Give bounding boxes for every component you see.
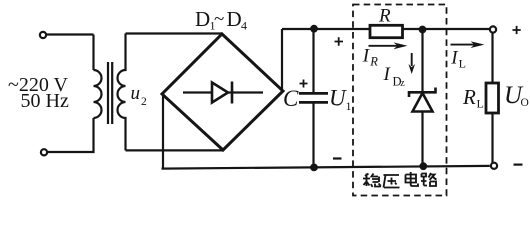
output terminal bottom	[491, 163, 497, 169]
label wen (stable)	[363, 174, 381, 188]
wire RL lower	[491, 113, 493, 163]
wire capacitor lower	[312, 102, 314, 167]
output terminal top	[490, 26, 496, 32]
arrow IL	[451, 44, 477, 46]
svg-text:R: R	[462, 85, 476, 109]
arrow IDz	[411, 53, 413, 66]
svg-text:1: 1	[346, 99, 352, 113]
minus sign rail U1	[333, 157, 342, 159]
zener diode Dz triangle	[413, 93, 433, 112]
wire RL upper	[491, 33, 493, 83]
wire top rail	[282, 28, 490, 30]
winding primary	[94, 70, 102, 118]
svg-text:R: R	[369, 55, 378, 69]
svg-text:O: O	[521, 97, 529, 109]
transformer core	[108, 62, 112, 124]
resistor R body	[370, 25, 403, 37]
minus sign output	[514, 164, 523, 166]
node capacitor bottom	[311, 164, 318, 171]
regulator dashed box	[353, 5, 447, 196]
resistor RL body	[486, 83, 499, 113]
wire bridge right vertex up	[281, 29, 283, 91]
svg-text:50 Hz: 50 Hz	[21, 90, 69, 112]
svg-text:U: U	[329, 86, 347, 111]
wire primary bottom	[48, 118, 94, 152]
bridge inner diode bar	[231, 82, 234, 104]
bridge inner diode lead	[183, 91, 263, 93]
wire top-left	[47, 33, 94, 35]
wire zener lower	[421, 112, 423, 167]
svg-text:z: z	[400, 78, 405, 89]
svg-text:D: D	[195, 7, 210, 31]
wire bridge left vertex down	[162, 94, 164, 169]
svg-text:~: ~	[214, 9, 224, 30]
zener diode Dz bar with wings	[409, 88, 436, 98]
svg-text:4: 4	[241, 19, 247, 33]
label dian (electric)	[406, 172, 419, 186]
svg-text:L: L	[459, 56, 466, 70]
svg-text:L: L	[477, 97, 484, 111]
arrow IR	[369, 45, 400, 47]
label lu (road)	[421, 173, 437, 186]
svg-text:R: R	[378, 6, 391, 27]
wire capacitor upper	[312, 29, 314, 92]
svg-text:C: C	[283, 86, 299, 111]
wire bottom rail	[162, 166, 490, 169]
winding secondary	[118, 34, 126, 151]
bridge rectifier D1-D4 diamond	[162, 34, 283, 150]
bridge inner diode triangle	[212, 83, 228, 103]
wire secondary top to bridge	[126, 32, 223, 34]
label ya (pressure)	[384, 175, 400, 188]
wire zener upper	[421, 30, 423, 93]
node zener bottom	[420, 163, 427, 170]
svg-text:D: D	[227, 7, 242, 31]
plus sign output	[513, 26, 521, 34]
wire secondary bottom to bridge	[126, 149, 224, 151]
plus sign capacitor	[300, 80, 308, 88]
svg-text:2: 2	[141, 96, 147, 108]
svg-text:u: u	[131, 83, 141, 104]
input terminal bottom	[41, 149, 47, 155]
capacitor C plates	[299, 93, 328, 102]
wire primary left vertical	[92, 35, 94, 71]
plus sign rail U1	[335, 37, 344, 46]
node capacitor top	[311, 25, 318, 32]
node zener top	[419, 26, 426, 33]
input terminal top	[40, 32, 46, 38]
